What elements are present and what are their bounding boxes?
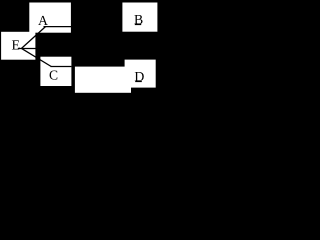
underline of label D	[135, 81, 142, 83]
wire diagonal E to C	[22, 48, 52, 66]
wire E vertex horizontal stub	[18, 48, 36, 50]
wire horizontal under label A to right edge of box A	[44, 26, 72, 28]
wire diagonal E to A	[22, 27, 46, 49]
svg-text:C: C	[49, 68, 58, 83]
background	[0, 0, 161, 96]
underline of label B	[135, 24, 141, 26]
svg-text:A: A	[38, 13, 48, 28]
node E box	[1, 32, 35, 60]
node D box (main left part)	[75, 67, 131, 93]
node D box (upper right part)	[125, 60, 156, 88]
node A box	[29, 3, 71, 33]
wire horizontal above label C to right edge of box C	[51, 66, 72, 68]
node C box	[40, 57, 71, 86]
node B box	[122, 3, 157, 32]
svg-text:E: E	[12, 38, 21, 53]
